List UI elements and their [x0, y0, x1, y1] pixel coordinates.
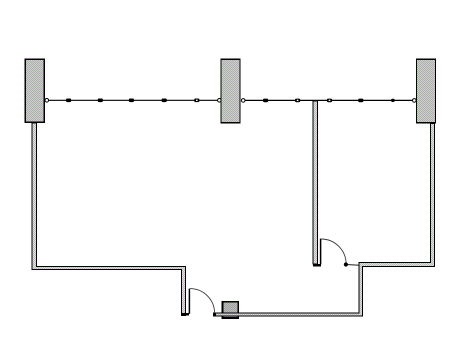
column C2 — [221, 59, 240, 123]
wall W8 middle vertical — [313, 101, 318, 264]
door D2 latch dot — [344, 262, 348, 266]
wall chain left: W1 left vertical + W2 bottom horizontal + W3 short vertical — [32, 123, 186, 316]
door D2 leaf — [320, 239, 322, 265]
connector circle at C2 right edge — [241, 99, 245, 103]
fixture square (wall-mounted box) — [223, 302, 239, 318]
node marker filled @164.2 — [162, 99, 167, 103]
beam line segment left (between column C1 and C2) — [46, 99, 414, 101]
wall W4 left end cap — [213, 313, 215, 317]
node marker open @329.5 — [327, 99, 332, 103]
door D1 swing arc — [190, 289, 215, 314]
node marker filled @68.6 — [66, 99, 395, 103]
door D2 swing arc — [321, 239, 346, 264]
node marker small filled @392.9 — [391, 99, 395, 102]
node marker filled @100.3 — [98, 99, 103, 103]
wall W8 bottom end cap — [313, 264, 321, 267]
connector circle at C3 left edge — [413, 99, 417, 103]
door D2 threshold line to wall corner — [346, 264, 359, 267]
wall chain right: W7 right vertical + W6 upper horizontal + W5 vertical + W4 thin bottom horizontal — [214, 124, 435, 316]
door D1 leaf — [189, 239, 359, 314]
node marker open @297.6 — [295, 99, 300, 103]
beam line segment right (between column C2 and C3) — [243, 99, 415, 101]
connector circle at C2 left edge — [218, 99, 222, 103]
column C3 — [417, 59, 436, 123]
node marker filled @131.4 — [129, 99, 134, 103]
node marker filled @360.8 — [358, 99, 363, 103]
wall W3 bottom end cap — [181, 313, 189, 316]
connector circle at C1 right edge — [45, 99, 416, 103]
node marker filled @265.6 — [263, 99, 268, 103]
column C1 — [25, 59, 44, 122]
node marker open @196.8 — [194, 99, 199, 103]
